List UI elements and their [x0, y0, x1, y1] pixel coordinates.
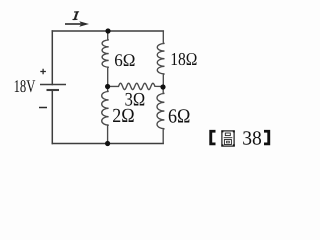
svg-text:6Ω: 6Ω — [168, 105, 190, 127]
svg-text:2Ω: 2Ω — [112, 105, 134, 127]
svg-text:6Ω: 6Ω — [114, 50, 135, 70]
svg-text:38: 38 — [242, 128, 262, 150]
svg-text:18Ω: 18Ω — [170, 49, 197, 69]
svg-text:18V: 18V — [14, 76, 36, 96]
